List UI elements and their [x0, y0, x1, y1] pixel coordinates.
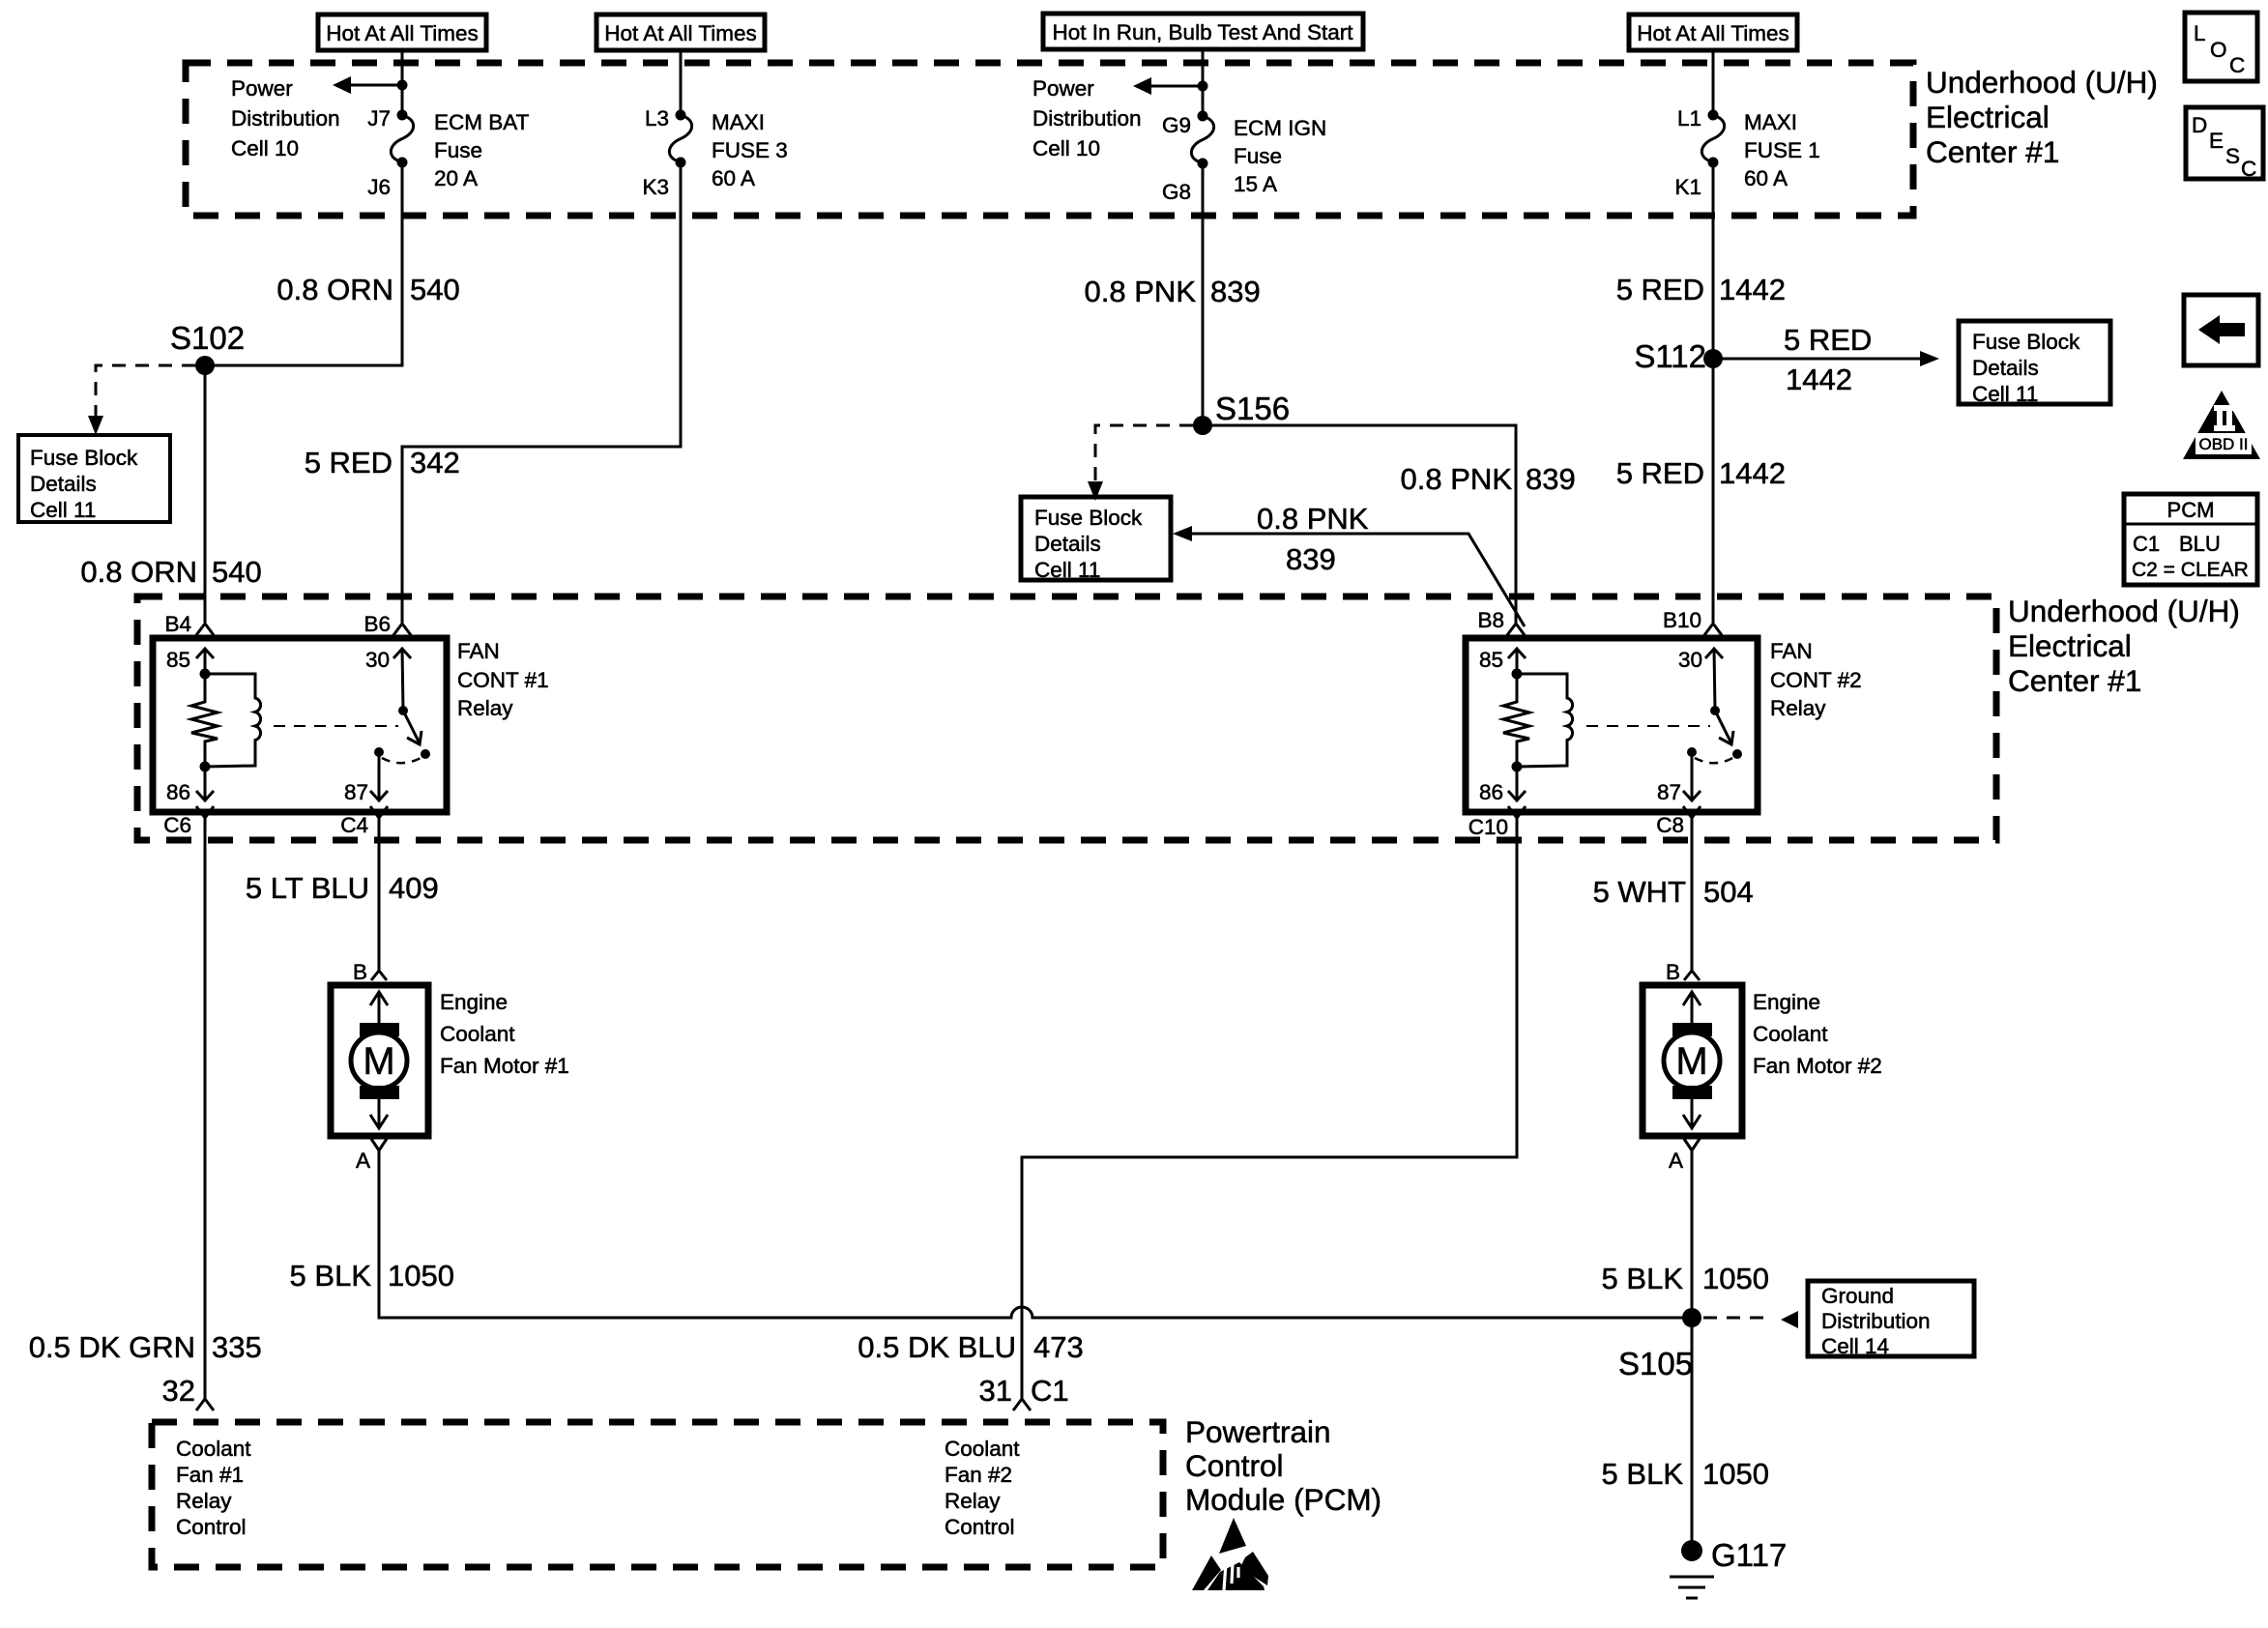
svg-text:Fan #1: Fan #1 [176, 1463, 244, 1487]
svg-text:31: 31 [979, 1374, 1012, 1408]
svg-text:B4: B4 [164, 612, 191, 636]
svg-text:335: 335 [212, 1330, 262, 1364]
label FAN CONT #2 Relay [1770, 639, 1862, 720]
svg-text:L3: L3 [645, 106, 669, 131]
svg-text:A: A [1669, 1148, 1683, 1173]
label 0.8 PNK 839 (right of S156) [1401, 462, 1576, 496]
svg-text:Fuse Block: Fuse Block [30, 446, 138, 470]
svg-text:504: 504 [1703, 875, 1754, 909]
pin 32 (PCM) [162, 1374, 214, 1410]
wire 5 LT BLU 409 from C4 to motor1 B [378, 818, 381, 973]
svg-text:87: 87 [1657, 780, 1681, 804]
label 0.5 DK BLU 473 [858, 1330, 1083, 1364]
pin B10 [1663, 608, 1722, 635]
svg-text:BLU: BLU [2179, 532, 2221, 556]
svg-text:15 A: 15 A [1234, 172, 1277, 196]
svg-text:0.5 DK BLU: 0.5 DK BLU [858, 1330, 1016, 1364]
svg-text:473: 473 [1033, 1330, 1084, 1364]
relay2 pin 85 arrow [1479, 648, 1526, 680]
label Engine Coolant Fan Motor #2 [1753, 990, 1882, 1078]
svg-text:Hot At All Times: Hot At All Times [604, 21, 757, 45]
svg-text:Details: Details [30, 472, 97, 496]
box Fuse Block Details Cell 11 (middle) [1021, 497, 1171, 582]
svg-text:540: 540 [410, 273, 460, 306]
label FAN CONT #1 Relay [457, 639, 549, 720]
fuse MAXI FUSE 3 60A (L3/K3) [642, 106, 787, 199]
node label box: Hot In Run, Bulb Test And Start [1043, 14, 1363, 49]
svg-text:0.8 ORN: 0.8 ORN [276, 273, 393, 306]
wire 0.5 DK GRN 335 from C6 down to pin 32 [204, 818, 207, 1399]
label Engine Coolant Fan Motor #1 [440, 990, 569, 1078]
svg-text:FAN: FAN [457, 639, 500, 663]
label Power Distribution Cell 10 (left) [231, 76, 340, 160]
node label box: Hot At All Times (1) [318, 15, 486, 50]
svg-text:85: 85 [1479, 648, 1503, 672]
svg-text:M: M [363, 1040, 394, 1083]
node label box: Hot At All Times (4) [1629, 15, 1797, 50]
icon back-arrow box [2184, 295, 2258, 365]
svg-text:1050: 1050 [388, 1259, 454, 1293]
svg-text:Module (PCM): Module (PCM) [1185, 1482, 1381, 1517]
svg-text:0.8 ORN: 0.8 ORN [80, 555, 197, 589]
svg-text:342: 342 [410, 446, 460, 480]
pin C6 [163, 806, 214, 837]
svg-text:Center #1: Center #1 [2008, 663, 2141, 698]
pin B6 [363, 612, 411, 636]
svg-text:C8: C8 [1656, 813, 1684, 837]
relay1 pin 85 arrow [166, 648, 214, 680]
svg-text:30: 30 [1678, 648, 1702, 672]
ground G117 [1670, 1537, 1787, 1598]
svg-text:Distribution: Distribution [1821, 1309, 1931, 1333]
svg-text:Power: Power [1032, 76, 1094, 101]
relay1 pin 86 arrow [166, 762, 214, 805]
svg-text:C2 = CLEAR: C2 = CLEAR [2132, 559, 2249, 581]
svg-text:Relay: Relay [945, 1489, 1001, 1513]
label 0.8 PNK 839 (upper) [1085, 275, 1261, 308]
box Fuse Block Details Cell 11 (right) [1959, 321, 2110, 406]
svg-text:5 RED: 5 RED [1784, 323, 1872, 357]
svg-text:B: B [353, 960, 367, 984]
svg-text:C6: C6 [163, 813, 191, 837]
svg-text:30: 30 [365, 648, 390, 672]
svg-text:0.8 PNK: 0.8 PNK [1085, 275, 1197, 308]
svg-text:Details: Details [1034, 532, 1101, 556]
svg-text:Engine: Engine [1753, 990, 1820, 1014]
svg-text:S112: S112 [1634, 338, 1706, 374]
underhood electrical center #1 dashed box (top) [186, 63, 1913, 216]
wire 5 RED 342 from K3 down, left, down to B6 [402, 162, 681, 623]
pin B4 [164, 612, 214, 636]
svg-text:FUSE 1: FUSE 1 [1744, 138, 1820, 162]
svg-text:Fuse Block: Fuse Block [1972, 330, 2080, 354]
relay2 mechanical link (dashed) [1586, 725, 1710, 727]
svg-text:Relay: Relay [176, 1489, 232, 1513]
relay1 coil winding [205, 674, 261, 767]
svg-text:1442: 1442 [1719, 273, 1786, 306]
icon LOC box [2185, 13, 2257, 81]
icon OBD II triangle [2183, 391, 2260, 459]
svg-text:Underhood (U/H): Underhood (U/H) [1926, 65, 2158, 100]
wire 0.8 ORN 540 from S102 down to B4 [204, 365, 207, 623]
relay1 pin 30 arrow and switch [365, 648, 430, 759]
wire 5 WHT 504 from C8 to motor2 B [1691, 818, 1694, 973]
svg-text:839: 839 [1526, 462, 1576, 496]
wire 0.8 PNK 839 branch with arrow into Fuse Block Details (middle) [1173, 502, 1525, 626]
svg-text:Distribution: Distribution [231, 106, 340, 131]
relay1 pin 87 contact [344, 747, 422, 804]
svg-text:OBD II: OBD II [2198, 435, 2248, 453]
svg-text:S105: S105 [1618, 1346, 1693, 1381]
label 5 WHT 504 [1593, 875, 1754, 909]
svg-text:J7: J7 [367, 106, 391, 131]
splice S102 [170, 320, 245, 375]
svg-text:5 BLK: 5 BLK [1602, 1262, 1684, 1295]
svg-text:CONT #1: CONT #1 [457, 668, 549, 692]
svg-text:Fuse: Fuse [1234, 144, 1282, 168]
motor: Engine Coolant Fan Motor #1 [331, 960, 428, 1173]
label Powertrain Control Module (PCM) [1185, 1414, 1381, 1517]
label 5 RED 342 [305, 446, 460, 480]
svg-text:Hot At All Times: Hot At All Times [326, 21, 479, 45]
svg-text:Cell 11: Cell 11 [1972, 382, 2038, 406]
svg-text:C: C [2229, 53, 2245, 77]
pin C10 [1468, 806, 1526, 839]
svg-text:5 RED: 5 RED [1616, 456, 1704, 490]
svg-text:A: A [356, 1148, 370, 1173]
label 0.5 DK GRN 335 [29, 1330, 262, 1364]
svg-text:Center #1: Center #1 [1926, 134, 2059, 169]
svg-text:5 BLK: 5 BLK [290, 1259, 372, 1293]
wire from Hot box 3 to fuse G9 [1202, 49, 1205, 116]
relay FAN CONT #2 box [1466, 638, 1758, 812]
svg-text:K1: K1 [1674, 175, 1701, 199]
svg-text:1050: 1050 [1702, 1262, 1769, 1295]
relay2 pin 87 contact [1657, 747, 1734, 804]
svg-text:Control: Control [1185, 1448, 1284, 1483]
wire 5 BLK 1050 from motor1 A down and right to S105 (with hop) [379, 1150, 1692, 1318]
label Coolant Fan #1 Relay Control [176, 1437, 251, 1539]
svg-text:Fan Motor #2: Fan Motor #2 [1753, 1054, 1882, 1078]
svg-text:Cell 11: Cell 11 [1034, 558, 1100, 582]
splice S105 [1618, 1308, 1701, 1381]
wire 5 RED 1442 arrow from S112 to Fuse Block Details (right) [1713, 323, 1939, 396]
svg-text:1050: 1050 [1702, 1457, 1769, 1491]
label Underhood (U/H) Electrical Center #1 (middle right) [2008, 594, 2240, 698]
svg-text:409: 409 [389, 871, 439, 905]
wire 5 BLK 1050 from S105 down to G117 [1691, 1318, 1694, 1549]
label Power Distribution Cell 10 (middle) [1032, 76, 1142, 160]
relay1 coil resistor [191, 674, 218, 767]
svg-text:Fan Motor #1: Fan Motor #1 [440, 1054, 569, 1078]
svg-text:S102: S102 [170, 320, 245, 356]
fuse ECM BAT 20A (J7/J6) [367, 106, 529, 199]
label 5 BLK 1050 (right upper) [1602, 1262, 1769, 1295]
svg-text:B6: B6 [363, 612, 391, 636]
svg-text:5 RED: 5 RED [305, 446, 393, 480]
svg-text:S156: S156 [1215, 391, 1290, 426]
arrow to Power Distribution (left) [333, 76, 408, 94]
svg-text:Electrical: Electrical [1926, 100, 2050, 134]
svg-text:Cell 11: Cell 11 [30, 498, 96, 522]
svg-text:Fan #2: Fan #2 [945, 1463, 1012, 1487]
relay1 mechanical link (dashed) [274, 725, 398, 727]
label 5 LT BLU 409 [246, 871, 439, 905]
svg-text:D: D [2192, 113, 2207, 137]
svg-text:Control: Control [176, 1515, 247, 1539]
dashed wire from S156 to Fuse Block Details (middle) [1088, 425, 1193, 501]
arrow to Power Distribution (middle) [1133, 77, 1208, 95]
svg-text:L1: L1 [1677, 106, 1701, 131]
svg-text:85: 85 [166, 648, 190, 672]
node label box: Hot At All Times (2) [596, 15, 765, 50]
wire 5 BLK 1050 from motor2 A to S105 [1691, 1150, 1694, 1318]
svg-text:5 RED: 5 RED [1616, 273, 1704, 306]
svg-text:0.8 PNK: 0.8 PNK [1401, 462, 1513, 496]
svg-text:E: E [2209, 129, 2224, 153]
svg-text:MAXI: MAXI [1744, 110, 1797, 134]
pin C4 [340, 806, 388, 837]
svg-text:CONT #2: CONT #2 [1770, 668, 1862, 692]
svg-text:Ground: Ground [1821, 1284, 1894, 1308]
svg-text:540: 540 [212, 555, 262, 589]
svg-text:1442: 1442 [1719, 456, 1786, 490]
svg-text:Coolant: Coolant [1753, 1022, 1828, 1046]
svg-text:60 A: 60 A [1744, 166, 1788, 190]
svg-text:O: O [2210, 38, 2227, 62]
wire from Hot box 4 to fuse L1 [1712, 50, 1715, 115]
svg-text:Underhood (U/H): Underhood (U/H) [2008, 594, 2240, 628]
svg-text:Fuse: Fuse [434, 138, 482, 162]
svg-text:B8: B8 [1477, 608, 1504, 632]
svg-text:32: 32 [162, 1374, 195, 1408]
relay2 coil resistor [1503, 674, 1529, 767]
svg-text:S: S [2225, 144, 2240, 168]
svg-text:Hot In Run, Bulb Test And Star: Hot In Run, Bulb Test And Start [1052, 20, 1353, 44]
svg-text:20 A: 20 A [434, 166, 478, 190]
dashed wire from S105 to Ground Distribution [1703, 1311, 1798, 1328]
svg-text:5 BLK: 5 BLK [1602, 1457, 1684, 1491]
pin B8 [1477, 608, 1525, 635]
svg-text:C4: C4 [340, 813, 368, 837]
pin 31 C1 (PCM) [979, 1374, 1069, 1410]
svg-text:60 A: 60 A [712, 166, 755, 190]
label 5 RED 1442 (upper) [1616, 273, 1786, 306]
svg-text:839: 839 [1286, 542, 1336, 576]
wire 0.8 ORN 540 from J6 down then left to S102 [205, 162, 402, 365]
svg-text:G9: G9 [1162, 113, 1191, 137]
fuse ECM IGN 15A (G9/G8) [1162, 111, 1326, 205]
svg-text:FUSE 3: FUSE 3 [712, 138, 788, 162]
svg-text:Cell 10: Cell 10 [1032, 136, 1100, 160]
svg-text:87: 87 [344, 780, 368, 804]
ESD warning symbol [1192, 1518, 1268, 1590]
svg-text:Cell 10: Cell 10 [231, 136, 299, 160]
svg-text:B10: B10 [1663, 608, 1701, 632]
splice S156 [1193, 391, 1290, 435]
PCM dashed box [152, 1422, 1163, 1567]
pin C8 [1656, 806, 1701, 837]
svg-text:86: 86 [166, 780, 190, 804]
label 0.8 ORN 540 (lower) [80, 555, 261, 589]
svg-text:MAXI: MAXI [712, 110, 765, 134]
motor: Engine Coolant Fan Motor #2 [1643, 960, 1742, 1173]
svg-text:Cell 14: Cell 14 [1821, 1334, 1889, 1358]
svg-text:PCM: PCM [2167, 498, 2215, 522]
wire from Hot box 2 to fuse L3 [680, 50, 683, 115]
svg-text:G117: G117 [1711, 1537, 1787, 1573]
svg-text:Coolant: Coolant [176, 1437, 251, 1461]
wire 0.8 PNK 839 from S156 right and down to B8 [1203, 425, 1516, 623]
svg-text:Power: Power [231, 76, 293, 101]
svg-text:Hot At All Times: Hot At All Times [1637, 21, 1789, 45]
icon DESC box [2186, 107, 2263, 181]
svg-text:J6: J6 [367, 175, 391, 199]
label Coolant Fan #2 Relay Control [945, 1437, 1020, 1539]
svg-text:G8: G8 [1162, 180, 1191, 204]
dashed wire from S102 to Fuse Block Details (left) [88, 365, 195, 435]
svg-text:B: B [1666, 960, 1680, 984]
label 5 BLK 1050 (bottom) [1602, 1457, 1769, 1491]
svg-text:C: C [2241, 157, 2256, 181]
icon PCM connector legend box [2124, 494, 2257, 585]
svg-text:Engine: Engine [440, 990, 508, 1014]
svg-text:0.8 PNK: 0.8 PNK [1257, 502, 1369, 536]
svg-text:Details: Details [1972, 356, 2039, 380]
label 5 BLK 1050 (left) [290, 1259, 454, 1293]
svg-text:Relay: Relay [457, 696, 513, 720]
svg-text:ECM IGN: ECM IGN [1234, 116, 1326, 140]
svg-text:Coolant: Coolant [440, 1022, 515, 1046]
svg-text:L: L [2194, 21, 2206, 45]
svg-text:Electrical: Electrical [2008, 628, 2132, 663]
relay2 pin 86 arrow [1479, 762, 1526, 805]
svg-text:0.5 DK GRN: 0.5 DK GRN [29, 1330, 195, 1364]
svg-text:C1: C1 [2133, 532, 2160, 556]
box Ground Distribution Cell 14 [1808, 1281, 1974, 1358]
wire from Hot box 1 to fuse J7 [401, 50, 404, 115]
svg-text:1442: 1442 [1786, 363, 1852, 396]
svg-text:Distribution: Distribution [1032, 106, 1142, 131]
svg-text:C1: C1 [1031, 1374, 1069, 1408]
underhood electrical center #1 dashed box (middle) [137, 596, 1996, 840]
wire 5 RED 1442 from K1 down through S112 to B10 [1712, 162, 1715, 623]
svg-text:ECM BAT: ECM BAT [434, 110, 530, 134]
fuse MAXI FUSE 1 60A (L1/K1) [1674, 106, 1819, 199]
svg-text:Fuse Block: Fuse Block [1034, 506, 1143, 530]
label 5 RED 1442 (lower) [1616, 456, 1786, 490]
relay FAN CONT #1 box [153, 638, 447, 812]
svg-text:K3: K3 [642, 175, 669, 199]
svg-text:M: M [1675, 1040, 1707, 1083]
svg-text:5 LT BLU: 5 LT BLU [246, 871, 369, 905]
splice S112 [1634, 338, 1723, 374]
svg-text:Coolant: Coolant [945, 1437, 1020, 1461]
label 0.8 ORN 540 (upper) [276, 273, 459, 306]
wire 0.8 PNK 839 from G8 down to S156 [1202, 163, 1205, 425]
wire 0.8 PNK/DK BLU from C10 down, left, down to pin 31 [1022, 818, 1517, 1399]
label Underhood (U/H) Electrical Center #1 (top right) [1926, 65, 2158, 169]
box Fuse Block Details Cell 11 (left) [18, 435, 170, 522]
svg-text:Powertrain: Powertrain [1185, 1414, 1331, 1449]
svg-text:5 WHT: 5 WHT [1593, 875, 1687, 909]
svg-text:FAN: FAN [1770, 639, 1813, 663]
svg-text:86: 86 [1479, 780, 1503, 804]
svg-text:C10: C10 [1468, 815, 1508, 839]
relay2 coil winding [1517, 674, 1573, 767]
svg-text:Relay: Relay [1770, 696, 1826, 720]
svg-text:839: 839 [1210, 275, 1261, 308]
relay2 pin 30 arrow and switch [1678, 648, 1742, 759]
svg-text:Control: Control [945, 1515, 1015, 1539]
